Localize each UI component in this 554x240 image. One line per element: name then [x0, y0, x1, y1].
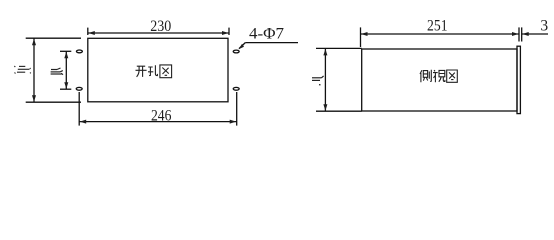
- inner dimension arrows: [64, 52, 68, 89]
- svg-text:4-Φ7: 4-Φ7: [249, 26, 284, 43]
- mounting hole top-left: [76, 50, 82, 53]
- char tu: [160, 65, 172, 78]
- rotated text 110 (tiny illegible strokes): [51, 68, 63, 75]
- svg-text:230: 230: [150, 18, 171, 35]
- char tu2: [447, 70, 458, 82]
- char kong: [148, 65, 157, 75]
- mounting hole top-right: [233, 50, 239, 53]
- dimension 3 arrow: [522, 32, 529, 36]
- dimension 251: [361, 27, 520, 47]
- char ce: [420, 70, 431, 83]
- svg-text:246: 246: [151, 107, 172, 124]
- mounting hole bottom-right: [233, 87, 239, 90]
- rotated text 150 (tiny illegible strokes): [14, 66, 31, 74]
- char shi: [433, 70, 445, 82]
- dimension 230 line: [88, 28, 229, 35]
- left outer dimension arrows: [32, 39, 36, 102]
- inner vertical dimension (hole spacing): [60, 51, 71, 89]
- ce shi tu (side view label): [420, 70, 457, 83]
- dimension 246 arrows: [80, 120, 237, 124]
- svg-text:3: 3: [540, 18, 548, 35]
- char kai: [136, 66, 147, 77]
- kai kong tu (cutout diagram label): [136, 65, 172, 78]
- dimension 230 arrows: [88, 31, 228, 35]
- left outer vertical dimension (cutout height): [26, 38, 81, 102]
- svg-text:251: 251: [427, 18, 448, 35]
- dimension 246 line: [79, 92, 237, 126]
- mounting hole bottom-left: [76, 87, 82, 90]
- dimension 3: [522, 27, 548, 41]
- 4-phi7 leader: [239, 43, 298, 49]
- right view vertical dimension: [316, 48, 362, 111]
- cutout rectangle (left view): [88, 38, 228, 102]
- dimension 251 arrows: [361, 32, 519, 36]
- right vertical dimension arrows: [323, 49, 327, 111]
- side view rectangle (right view): [362, 49, 517, 111]
- rotated text (tiny illegible strokes): [312, 76, 324, 85]
- leader arrowhead: [239, 44, 244, 49]
- panel strip: [517, 46, 520, 113]
